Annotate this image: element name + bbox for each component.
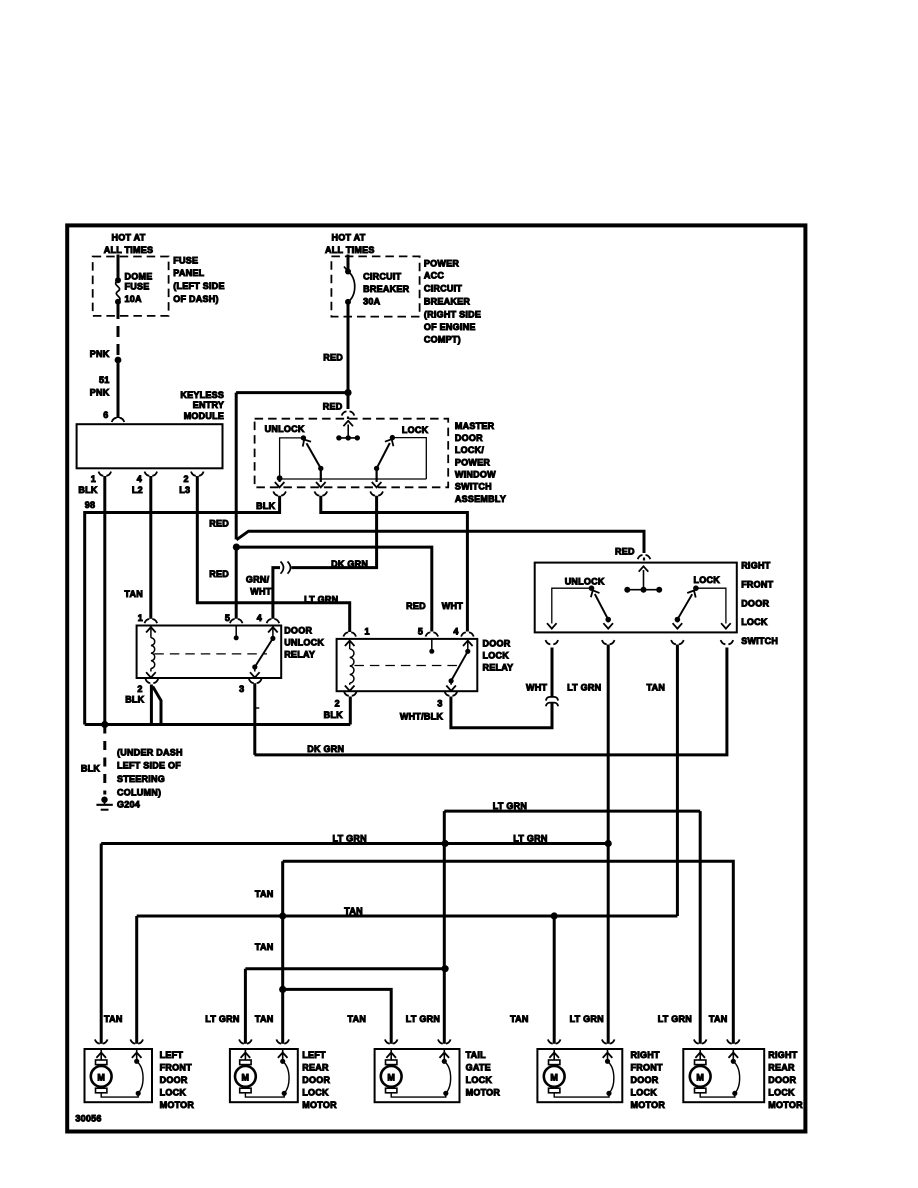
wire LT GRN riser to tail gate motor [443, 811, 446, 1044]
svg-text:ENTRY: ENTRY [193, 400, 224, 410]
node HOT AT ALL TIMES (breaker feed) [325, 232, 375, 255]
svg-text:LT GRN: LT GRN [513, 834, 547, 844]
label circuit 51 PNK [90, 375, 110, 397]
label TAN [510, 1014, 529, 1024]
svg-text:2: 2 [335, 699, 340, 709]
motor M4 right front door lock motor [537, 1049, 665, 1110]
right switch LOCK fixed contact and link [693, 585, 731, 628]
svg-text:4: 4 [257, 613, 262, 623]
svg-text:UNLOCK: UNLOCK [565, 577, 605, 587]
svg-text:MOTOR: MOTOR [302, 1100, 337, 1110]
svg-text:PNK: PNK [90, 349, 110, 359]
svg-text:ALL TIMES: ALL TIMES [104, 245, 154, 255]
svg-text:COLUMN): COLUMN) [117, 788, 161, 798]
pin 4 label [137, 474, 142, 484]
door lock relay switch blade [446, 641, 472, 691]
svg-text:L2: L2 [132, 485, 143, 495]
junction LT GRN lower branch [442, 965, 449, 972]
connector right pin right rear door lock motor [727, 1039, 740, 1043]
svg-text:LOCK: LOCK [631, 1088, 658, 1098]
svg-text:TAN: TAN [647, 683, 666, 693]
svg-text:1: 1 [91, 474, 96, 484]
door unlock relay actuator dashed link [154, 653, 267, 655]
keyless entry module U1 [77, 424, 223, 468]
label RED [209, 519, 229, 529]
label DK GRN [307, 744, 344, 754]
connector pin 3 door unlock relay [249, 679, 262, 683]
svg-text:RELAY: RELAY [284, 649, 315, 659]
svg-text:DOOR: DOOR [302, 1075, 330, 1085]
label TAN [344, 906, 363, 916]
svg-text:TAN: TAN [255, 889, 274, 899]
wire WHT to right door switch [551, 648, 554, 698]
inline connector DK GRN / GRN WHT [281, 562, 291, 574]
svg-text:DK GRN: DK GRN [331, 559, 368, 569]
connector pin 6 keyless entry module [112, 418, 125, 422]
wire PNK fuse to splice (dashed) [117, 302, 120, 356]
right front door lock switch box [535, 563, 737, 633]
svg-text:M: M [97, 1073, 105, 1083]
svg-text:BLK: BLK [81, 764, 100, 774]
svg-text:LOCK: LOCK [302, 1088, 329, 1098]
motor M2 left rear door lock motor [230, 1049, 337, 1110]
connector left pin left rear door lock motor [239, 1039, 252, 1043]
svg-text:COMPT): COMPT) [424, 335, 461, 345]
wire BLK unlock relay pin 2 to ground rail [151, 685, 161, 725]
wire RED riser lower [235, 547, 238, 619]
svg-text:RED: RED [615, 546, 635, 556]
label RED [323, 352, 343, 362]
svg-text:FRONT: FRONT [160, 1063, 192, 1073]
svg-text:5: 5 [418, 626, 423, 636]
wire DK GRN unlock relay pin 3 down [255, 683, 259, 755]
svg-text:DK GRN: DK GRN [307, 744, 344, 754]
pin 2 label [335, 699, 340, 709]
svg-text:LEFT: LEFT [302, 1050, 326, 1060]
svg-text:TAIL: TAIL [466, 1050, 487, 1060]
label WHT [442, 601, 463, 611]
pin 1 label [138, 613, 143, 623]
label LT GRN [567, 683, 601, 693]
svg-text:RED: RED [406, 601, 426, 611]
svg-text:REAR: REAR [768, 1063, 795, 1073]
svg-text:SWITCH: SWITCH [455, 482, 492, 492]
pin 6 label [103, 410, 108, 420]
junction LT GRN rail branch [442, 840, 449, 847]
svg-text:MOTOR: MOTOR [466, 1088, 501, 1098]
wire BLK master to ground rail [85, 496, 280, 725]
label DOOR LOCK RELAY [483, 639, 514, 673]
wire TAN mid riser [281, 861, 284, 1044]
svg-text:GATE: GATE [466, 1063, 491, 1073]
connector left pin tail gate lock motor [385, 1039, 398, 1043]
label LT GRN [570, 1014, 604, 1024]
svg-text:M: M [550, 1073, 558, 1083]
label DOOR UNLOCK RELAY [284, 626, 324, 660]
label TAN [255, 942, 274, 952]
connector pin 5 door unlock relay [230, 619, 243, 623]
svg-text:TAN: TAN [255, 1014, 274, 1024]
motor M3 tail gate lock motor [375, 1049, 501, 1102]
svg-text:BLK: BLK [125, 695, 144, 705]
svg-text:LOCK: LOCK [466, 1075, 493, 1085]
label RED [406, 601, 426, 611]
connector pin 4 keyless module [145, 472, 158, 476]
svg-text:LT GRN: LT GRN [406, 1014, 440, 1024]
wire BLK lock relay pin 2 to ground rail [349, 697, 352, 725]
svg-text:BLK: BLK [256, 501, 275, 511]
label TAN [255, 889, 274, 899]
svg-text:LT GRN: LT GRN [567, 683, 601, 693]
svg-text:4: 4 [453, 626, 458, 636]
door lock relay actuator dashed link [354, 665, 459, 667]
label PNK [90, 349, 110, 359]
svg-text:30056: 30056 [75, 1114, 101, 1124]
label BLK [256, 501, 275, 511]
wire TAN rail [137, 915, 678, 918]
svg-text:DOOR: DOOR [160, 1075, 188, 1085]
label LOCK [694, 575, 721, 585]
svg-text:(RIGHT SIDE: (RIGHT SIDE [424, 309, 481, 319]
wire WHT master to door lock relay pin 4 [321, 496, 468, 632]
connector pin 1 keyless module [99, 472, 112, 476]
svg-text:POWER: POWER [455, 458, 491, 468]
splice node PNK [115, 357, 122, 364]
label RED [615, 546, 635, 556]
svg-text:LT GRN: LT GRN [493, 801, 527, 811]
connector pin 2 door lock relay [344, 692, 357, 696]
label LT GRN [304, 594, 338, 604]
junction LT GRN at rail [605, 840, 612, 847]
label (UNDER DASH LEFT SIDE OF STEERING COLUMN) [117, 748, 183, 798]
label BLK [81, 764, 100, 774]
svg-text:LOCK: LOCK [483, 651, 510, 661]
connector pin 2 keyless module [191, 472, 204, 476]
pin 1 label [365, 626, 370, 636]
connector pin 5 door lock relay [426, 632, 439, 636]
svg-text:WHT: WHT [250, 587, 271, 597]
label FUSE PANEL (LEFT SIDE OF DASH) [173, 256, 225, 304]
svg-text:REAR: REAR [302, 1063, 329, 1073]
master BLK pin arrow [275, 475, 285, 487]
connector pin 1 door lock relay [343, 632, 356, 636]
junction RED to relays [233, 544, 240, 551]
svg-text:BREAKER: BREAKER [363, 284, 410, 294]
svg-text:ALL TIMES: ALL TIMES [325, 245, 375, 255]
connector right pin right front door lock motor [602, 1039, 615, 1043]
svg-text:FRONT: FRONT [631, 1063, 663, 1073]
label WHT/BLK [400, 712, 443, 722]
svg-text:OF DASH): OF DASH) [173, 294, 219, 304]
svg-text:OF ENGINE: OF ENGINE [424, 322, 476, 332]
wire GRN/WHT to door unlock relay pin 4 [273, 568, 280, 619]
wire TAN to right front motor [553, 916, 556, 1044]
connector master unlock output pin [315, 491, 328, 495]
label RED [323, 401, 343, 411]
pin 3 label [437, 699, 442, 709]
svg-text:30A: 30A [363, 296, 381, 306]
svg-text:1: 1 [365, 626, 370, 636]
svg-text:M: M [387, 1073, 395, 1083]
connector pin 1 door unlock relay [145, 619, 158, 623]
connector right pin tail gate lock motor [438, 1039, 451, 1043]
svg-text:FRONT: FRONT [741, 580, 773, 590]
connector WHT pin right door switch [546, 640, 559, 644]
master switch common ground rail [280, 478, 427, 480]
label TAN [647, 683, 666, 693]
svg-text:RIGHT: RIGHT [631, 1050, 661, 1060]
svg-text:UNLOCK: UNLOCK [265, 424, 305, 434]
master switch common T-bar with contacts [336, 435, 360, 440]
master lock output arrow [372, 468, 382, 488]
wire 51 PNK splice to module pin 6 [117, 360, 120, 418]
label GRN/ WHT [246, 575, 272, 597]
svg-text:4: 4 [137, 474, 142, 484]
svg-text:TAN: TAN [510, 1014, 529, 1024]
svg-text:CIRCUIT: CIRCUIT [363, 272, 401, 282]
svg-text:BREAKER: BREAKER [424, 297, 471, 307]
master UNLOCK fixed contact and link [280, 435, 306, 478]
svg-text:SWITCH: SWITCH [741, 636, 778, 646]
svg-text:PANEL: PANEL [173, 268, 204, 278]
svg-text:DOOR: DOOR [284, 626, 312, 636]
connector pin 3 door lock relay [445, 692, 458, 696]
svg-text:LT GRN: LT GRN [333, 834, 367, 844]
svg-text:MASTER: MASTER [455, 421, 495, 431]
svg-text:LEFT: LEFT [160, 1050, 184, 1060]
inline connector WHT / WHT BLK [546, 697, 558, 706]
svg-text:GRN/: GRN/ [246, 575, 270, 585]
label DK GRN [331, 559, 368, 569]
svg-text:STEERING: STEERING [117, 774, 165, 784]
svg-text:WHT: WHT [526, 683, 547, 693]
svg-text:DOME: DOME [125, 271, 153, 281]
svg-text:51: 51 [99, 375, 110, 385]
node HOT AT ALL TIMES (fuse feed) [104, 232, 154, 255]
wire TAN lower rail to tail gate motor [283, 989, 392, 1043]
svg-text:LEFT SIDE OF: LEFT SIDE OF [117, 760, 181, 770]
svg-text:LOCK: LOCK [694, 575, 721, 585]
svg-text:2: 2 [184, 474, 189, 484]
wire LT GRN right switch to right front motor [607, 645, 610, 1044]
connector LT GRN pin right door switch [602, 640, 615, 644]
svg-text:TAN: TAN [344, 906, 363, 916]
svg-text:5: 5 [225, 613, 230, 623]
connector left pin right rear door lock motor [694, 1039, 707, 1043]
svg-text:RED: RED [209, 569, 229, 579]
svg-text:M: M [242, 1073, 250, 1083]
svg-text:LOCK/: LOCK/ [455, 445, 484, 455]
fuse F DOME FUSE 10A [115, 271, 153, 304]
connector master lock output pin [370, 491, 383, 495]
master unlock output arrow [316, 468, 326, 488]
right switch UNLOCK blade [588, 588, 613, 628]
label LT GRN [205, 1014, 239, 1024]
wire BLK ground rail [85, 723, 351, 726]
svg-text:RED: RED [209, 519, 229, 529]
pin 1 label [91, 474, 96, 484]
right switch common feed arrow [639, 566, 649, 589]
svg-text:POWER: POWER [424, 258, 460, 268]
svg-text:LOCK: LOCK [402, 425, 429, 435]
wire TAN right switch down [676, 645, 679, 917]
label WHT [526, 683, 547, 693]
right switch common T-bar with contacts [624, 587, 662, 593]
connector left pin right front door lock motor [548, 1039, 561, 1043]
svg-text:1: 1 [138, 613, 143, 623]
svg-text:LT GRN: LT GRN [205, 1014, 239, 1024]
svg-text:TAN: TAN [255, 942, 274, 952]
wire RED junction to master switch [347, 393, 350, 409]
svg-text:TAN: TAN [348, 1014, 367, 1024]
master LOCK switch blade [374, 437, 396, 471]
connector right pin left front door lock motor [130, 1039, 143, 1043]
pin 4 label [257, 613, 262, 623]
wire LT GRN rail to left front motor [100, 844, 103, 1044]
wire feed into breaker [347, 255, 350, 272]
label L3 [179, 485, 190, 495]
svg-text:WHT/BLK: WHT/BLK [400, 712, 443, 722]
right switch LOCK blade [673, 588, 699, 628]
ground G204 [96, 797, 140, 810]
master door lock / power window switch assembly dashed box [255, 419, 449, 488]
svg-text:DOOR: DOOR [631, 1075, 659, 1085]
connector pin 4 door lock relay [461, 632, 474, 636]
wire RED to door lock relay pin 5 [236, 547, 431, 631]
master switch common feed arrow [343, 421, 353, 438]
motor M1 left front door lock motor [85, 1049, 195, 1110]
wire LT GRN rail [101, 842, 608, 845]
wire RED junction to left riser [236, 391, 348, 394]
svg-text:DOOR: DOOR [768, 1075, 796, 1085]
motor M5 right rear door lock motor [683, 1049, 803, 1110]
connector pin 4 door unlock relay [267, 619, 280, 623]
wire RED breaker to junction [347, 302, 350, 393]
svg-text:FUSE: FUSE [173, 256, 198, 266]
label LT GRN [658, 1014, 692, 1024]
svg-text:RIGHT: RIGHT [768, 1050, 798, 1060]
svg-text:TAN: TAN [104, 1014, 123, 1024]
svg-text:WHT: WHT [442, 601, 463, 611]
svg-text:LOCK: LOCK [160, 1088, 187, 1098]
svg-text:LT GRN: LT GRN [570, 1014, 604, 1024]
svg-text:MODULE: MODULE [184, 411, 225, 421]
svg-text:MOTOR: MOTOR [768, 1100, 803, 1110]
master LOCK fixed contact and link [390, 435, 427, 479]
label RIGHT FRONT DOOR LOCK SWITCH [741, 560, 778, 646]
connector RED master switch feed [342, 411, 355, 415]
svg-text:TAN: TAN [124, 589, 143, 599]
wire feed into fuse [117, 255, 120, 281]
door unlock relay K1 box [137, 626, 282, 679]
svg-text:UNLOCK: UNLOCK [284, 637, 324, 647]
wire TAN upper rail to right rear motor [283, 861, 734, 1044]
connector left pin left front door lock motor [95, 1039, 108, 1043]
junction RED node [344, 389, 351, 396]
svg-text:RED: RED [323, 401, 343, 411]
connector TAN pin right door switch [671, 640, 684, 644]
connector DK GRN pin right door switch [721, 640, 734, 644]
svg-text:LOCK: LOCK [768, 1088, 795, 1098]
wire TAN module L2 to door unlock relay pin 1 [149, 476, 152, 619]
svg-text:DOOR: DOOR [741, 599, 769, 609]
figure number 30056 [75, 1114, 101, 1124]
svg-text:HOT AT: HOT AT [332, 232, 366, 242]
connector master BLK pin [273, 491, 286, 495]
svg-text:DOOR: DOOR [483, 639, 511, 649]
label MASTER DOOR LOCK/ POWER WINDOW SWITCH ASSEMBLY [455, 421, 506, 504]
junction TAN mid riser [279, 912, 286, 919]
svg-text:6: 6 [103, 410, 108, 420]
svg-text:3: 3 [437, 699, 442, 709]
pin 2 label [137, 684, 142, 694]
svg-text:LT GRN: LT GRN [658, 1014, 692, 1024]
svg-text:WINDOW: WINDOW [455, 469, 496, 479]
wire RED riser upper [235, 393, 238, 540]
svg-text:ASSEMBLY: ASSEMBLY [455, 494, 506, 504]
svg-text:10A: 10A [125, 294, 143, 304]
wire TAN rail to left front motor [135, 916, 138, 1044]
connector right pin left rear door lock motor [276, 1039, 289, 1043]
svg-text:ACC: ACC [424, 271, 444, 281]
svg-text:RED: RED [323, 352, 343, 362]
junction BLK ground rail to G204 [101, 721, 108, 728]
label UNLOCK [265, 424, 305, 434]
junction TAN lower branch [279, 986, 286, 993]
diagram border frame [67, 225, 805, 1131]
svg-text:KEYLESS: KEYLESS [180, 390, 224, 400]
svg-text:MOTOR: MOTOR [631, 1100, 666, 1110]
door lock relay K2 box [337, 639, 478, 691]
wire BLK dashed to ground [103, 725, 106, 795]
svg-text:2: 2 [137, 684, 142, 694]
svg-text:RIGHT: RIGHT [741, 560, 771, 570]
wire BLK 98 module to ground rail [103, 476, 106, 725]
wire DK GRN rail to right door switch [255, 648, 727, 755]
pin 5 label [418, 626, 423, 636]
wire RED branch to right front door lock switch [236, 531, 644, 553]
fuse panel dashed box [93, 257, 169, 316]
wire RED into right door switch [643, 558, 645, 561]
label TAN [709, 1014, 728, 1024]
junction TAN at right front motor [551, 912, 558, 919]
wire WHT/BLK lock relay pin 3 to inline connector [451, 697, 552, 728]
svg-text:LT GRN: LT GRN [304, 594, 338, 604]
label TAN [348, 1014, 367, 1024]
door unlock relay pin 5 contact stub [234, 626, 239, 641]
svg-text:RELAY: RELAY [483, 663, 514, 673]
svg-text:FUSE: FUSE [125, 282, 150, 292]
label LT GRN [333, 834, 367, 844]
label LT GRN [513, 834, 547, 844]
wire LT GRN module L3 to door lock relay pin 1 [197, 476, 349, 632]
label L2 [132, 485, 143, 495]
master UNLOCK switch blade [300, 437, 323, 471]
right switch UNLOCK fixed contact and link [547, 585, 594, 628]
svg-text:HOT AT: HOT AT [112, 232, 146, 242]
label LT GRN [493, 801, 527, 811]
svg-text:L3: L3 [179, 485, 190, 495]
label UNLOCK [565, 577, 605, 587]
label BLK [125, 695, 144, 705]
circuit breaker CB 30A [344, 267, 410, 307]
label BLK 98 [78, 485, 97, 510]
label TAN [255, 1014, 274, 1024]
svg-text:BLK: BLK [78, 485, 97, 495]
svg-text:98: 98 [85, 500, 96, 510]
svg-text:LOCK: LOCK [741, 617, 768, 627]
connector RED right door switch feed [638, 555, 651, 559]
